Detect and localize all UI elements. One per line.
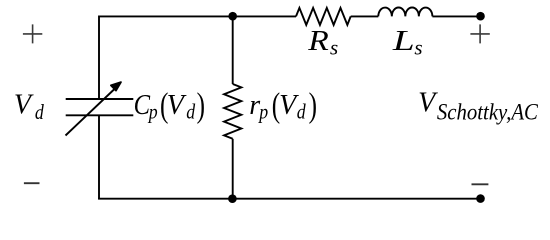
svg-text:): ) <box>197 86 205 125</box>
resistor R_s value label <box>307 25 338 60</box>
svg-text:s: s <box>414 35 422 59</box>
wire left branch lower <box>98 115 100 198</box>
svg-text:C: C <box>134 89 151 120</box>
variable capacitor C_p(V_d) plates <box>66 99 134 115</box>
node terminal bottom right <box>476 194 485 203</box>
resistor r_p(V_d) <box>224 84 241 139</box>
svg-text:d: d <box>297 101 306 124</box>
resistor R_s <box>296 8 351 25</box>
svg-text:R: R <box>307 25 329 57</box>
wire top rail left segment <box>99 15 296 17</box>
variable capacitor arrow <box>66 89 115 136</box>
polarity plus right <box>470 24 489 43</box>
svg-text:s: s <box>330 35 338 59</box>
wire left branch upper <box>98 16 100 100</box>
output label V_Schottky,AC <box>418 88 538 126</box>
node terminal top right <box>476 12 485 21</box>
wire bottom rail <box>98 198 480 200</box>
polarity minus right <box>472 183 489 185</box>
svg-text:Schottky,AC: Schottky,AC <box>437 100 538 126</box>
wire middle branch upper <box>232 16 234 84</box>
wire top rail right segment <box>432 15 480 17</box>
svg-text:L: L <box>392 26 415 56</box>
svg-text:V: V <box>167 90 187 121</box>
wire middle branch lower <box>232 139 234 199</box>
wire top rail between resistor and inductor <box>351 15 379 17</box>
node junction bottom middle <box>228 194 237 203</box>
svg-text:d: d <box>186 101 195 124</box>
svg-text:V: V <box>14 90 34 121</box>
inductor L_s value label <box>392 26 423 59</box>
svg-text:): ) <box>309 86 317 125</box>
polarity plus left <box>23 24 42 43</box>
source label V_d <box>14 90 44 124</box>
polarity minus left <box>24 182 40 184</box>
inductor L_s <box>378 8 432 17</box>
svg-text:p: p <box>147 101 158 124</box>
node junction top middle <box>228 12 237 21</box>
svg-text:V: V <box>418 88 438 119</box>
capacitor value label C_p(V_d) <box>134 86 205 125</box>
svg-text:d: d <box>35 102 44 125</box>
svg-text:p: p <box>257 101 268 124</box>
resistor value label r_p(V_d) <box>249 86 317 125</box>
